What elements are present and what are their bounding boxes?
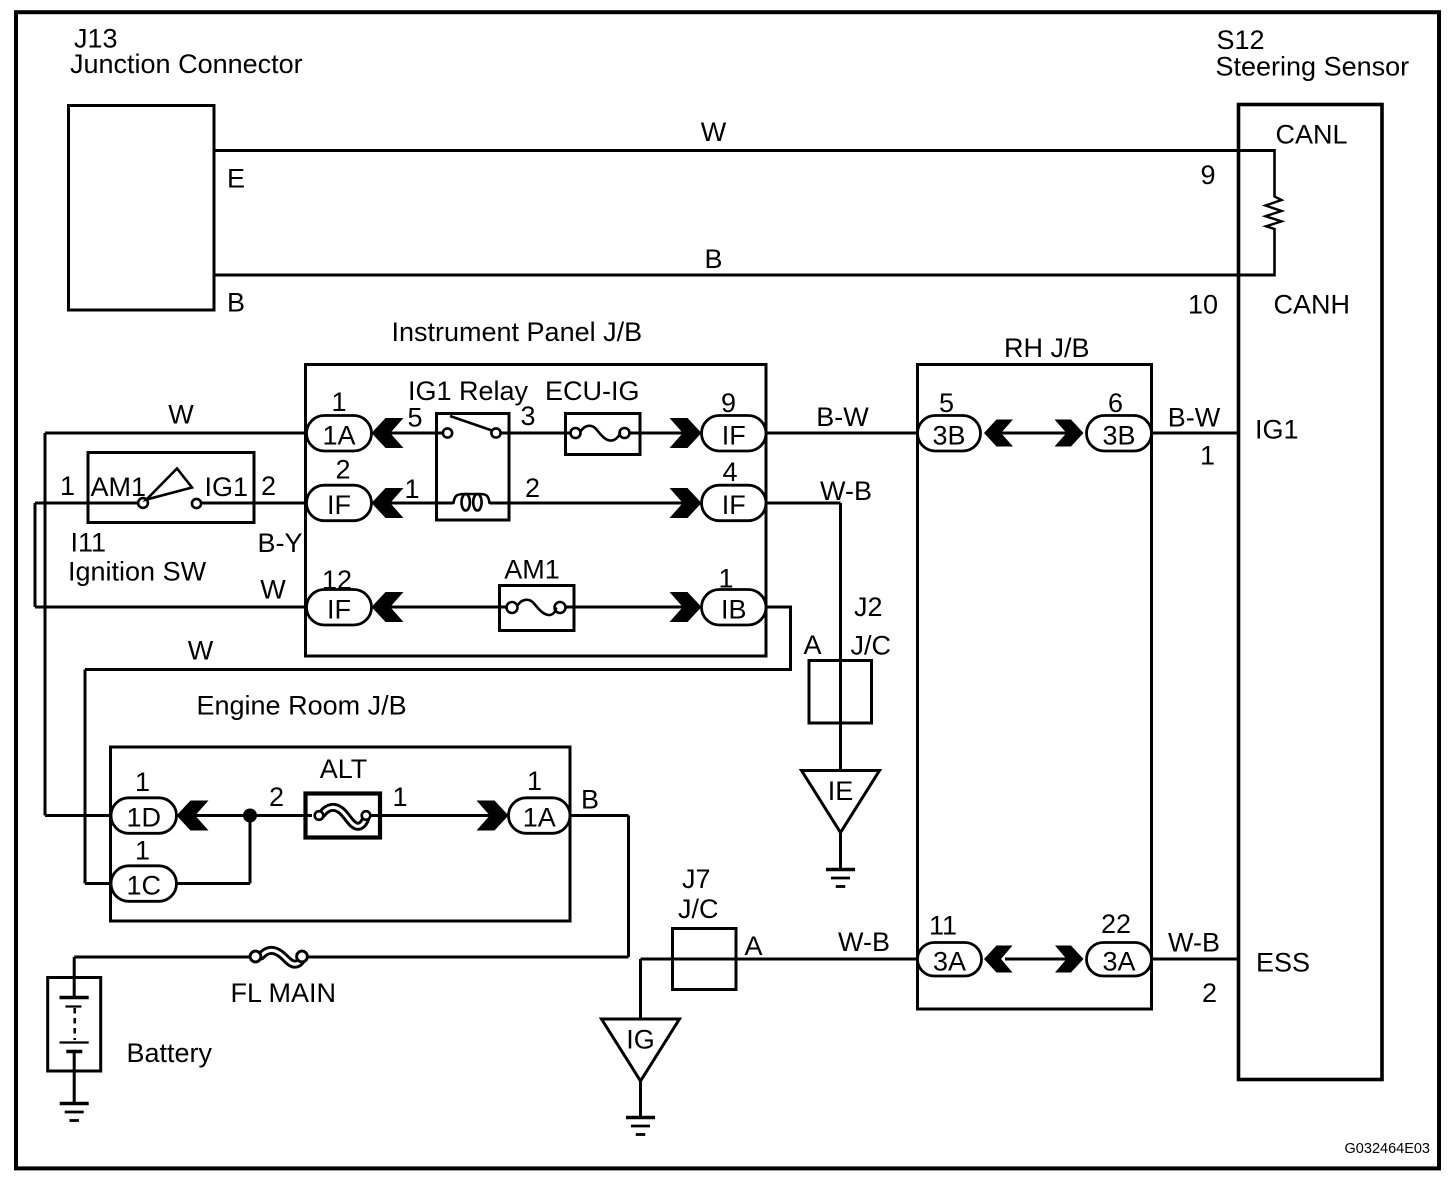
svg-text:B: B: [581, 785, 599, 815]
svg-text:1A: 1A: [322, 420, 355, 450]
svg-text:1: 1: [1200, 441, 1215, 471]
svg-text:W-B: W-B: [1168, 928, 1220, 958]
svg-text:2: 2: [335, 455, 350, 485]
svg-text:ALT: ALT: [320, 754, 368, 784]
svg-text:CANL: CANL: [1276, 120, 1348, 150]
svg-text:Ignition SW: Ignition SW: [68, 557, 207, 587]
svg-text:6: 6: [1108, 388, 1123, 418]
svg-text:Instrument Panel J/B: Instrument Panel J/B: [392, 317, 643, 347]
svg-text:J2: J2: [854, 592, 883, 622]
svg-text:B-Y: B-Y: [258, 528, 303, 558]
svg-text:1: 1: [392, 782, 407, 812]
svg-text:1: 1: [527, 766, 542, 796]
svg-text:10: 10: [1188, 290, 1218, 320]
svg-text:5: 5: [939, 388, 954, 418]
svg-text:W-B: W-B: [820, 476, 872, 506]
svg-text:1A: 1A: [523, 803, 556, 833]
svg-text:W-B: W-B: [838, 927, 890, 957]
svg-text:J/C: J/C: [851, 631, 892, 661]
svg-text:4: 4: [722, 457, 737, 487]
svg-text:RH J/B: RH J/B: [1004, 333, 1090, 363]
svg-text:2: 2: [269, 782, 284, 812]
svg-text:A: A: [804, 630, 822, 660]
svg-text:FL MAIN: FL MAIN: [231, 978, 337, 1008]
svg-text:Junction Connector: Junction Connector: [70, 49, 303, 79]
svg-text:Steering Sensor: Steering Sensor: [1216, 52, 1410, 82]
svg-text:W: W: [168, 400, 194, 430]
svg-text:W: W: [260, 575, 286, 605]
svg-text:1C: 1C: [126, 871, 161, 901]
svg-text:AM1: AM1: [91, 472, 147, 502]
svg-text:Engine Room J/B: Engine Room J/B: [197, 691, 407, 721]
svg-text:3A: 3A: [1102, 946, 1135, 976]
svg-text:IF: IF: [327, 594, 351, 624]
svg-text:J/C: J/C: [678, 894, 719, 924]
svg-text:IE: IE: [828, 776, 854, 806]
svg-text:IB: IB: [721, 594, 747, 624]
svg-text:S12: S12: [1217, 25, 1265, 55]
svg-text:Battery: Battery: [127, 1038, 213, 1068]
svg-text:IG: IG: [626, 1025, 655, 1055]
svg-text:1: 1: [135, 836, 150, 866]
svg-text:1D: 1D: [126, 803, 161, 833]
svg-text:2: 2: [525, 473, 540, 503]
svg-text:IF: IF: [722, 420, 746, 450]
svg-text:IF: IF: [327, 490, 351, 520]
svg-text:11: 11: [929, 911, 957, 941]
svg-text:9: 9: [1200, 160, 1215, 190]
svg-text:1: 1: [718, 564, 733, 594]
svg-text:1: 1: [60, 471, 75, 501]
svg-text:1: 1: [331, 387, 346, 417]
svg-text:J7: J7: [682, 864, 711, 894]
svg-text:W: W: [188, 636, 214, 666]
svg-text:ESS: ESS: [1256, 948, 1310, 978]
svg-text:IG1 Relay: IG1 Relay: [408, 376, 529, 406]
svg-text:B: B: [227, 288, 245, 318]
svg-text:2: 2: [1202, 978, 1217, 1008]
svg-text:5: 5: [407, 403, 422, 433]
svg-text:3: 3: [520, 401, 535, 431]
svg-text:I11: I11: [71, 528, 107, 558]
svg-text:IF: IF: [722, 490, 746, 520]
svg-text:3B: 3B: [1102, 420, 1135, 450]
svg-text:IG1: IG1: [205, 472, 249, 502]
svg-text:CANH: CANH: [1274, 290, 1351, 320]
svg-text:W: W: [701, 117, 727, 147]
svg-text:1: 1: [135, 767, 150, 797]
svg-text:G032464E03: G032464E03: [1345, 1141, 1430, 1157]
svg-text:B: B: [704, 244, 722, 274]
svg-text:9: 9: [721, 388, 736, 418]
svg-text:22: 22: [1101, 909, 1131, 939]
svg-text:3B: 3B: [932, 420, 965, 450]
svg-text:E: E: [227, 164, 245, 194]
svg-text:3A: 3A: [933, 946, 966, 976]
svg-text:B-W: B-W: [816, 402, 869, 432]
svg-text:ECU-IG: ECU-IG: [545, 376, 640, 406]
svg-text:A: A: [745, 931, 763, 961]
svg-text:IG1: IG1: [1255, 415, 1299, 445]
svg-text:B-W: B-W: [1168, 403, 1221, 433]
svg-text:2: 2: [261, 471, 276, 501]
svg-text:AM1: AM1: [504, 555, 560, 585]
svg-text:1: 1: [404, 474, 419, 504]
